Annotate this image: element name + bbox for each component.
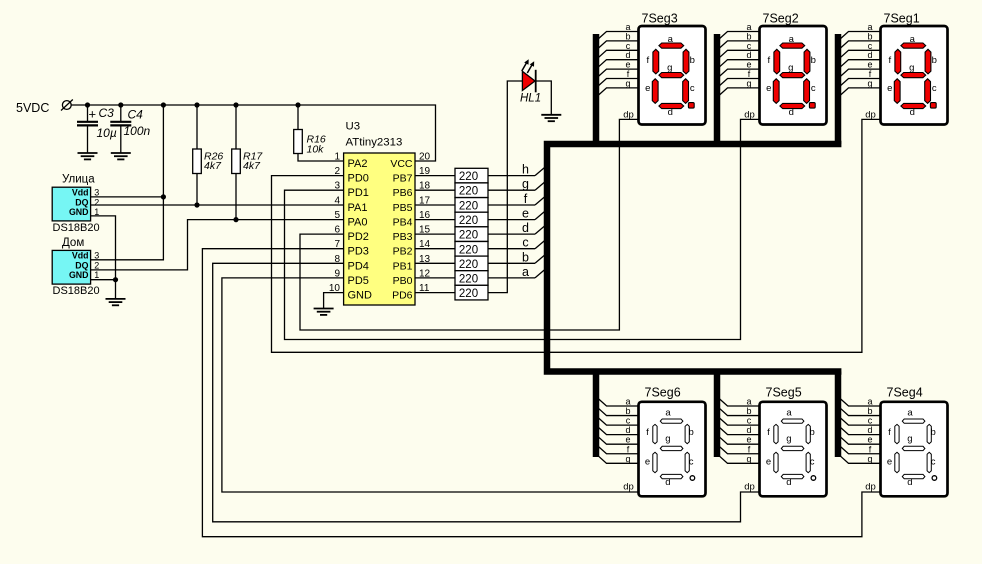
svg-text:d: d	[786, 477, 791, 488]
junction R17/DQ2 net	[233, 217, 238, 222]
wire Дом GND pin 1	[91, 279, 116, 281]
svg-text:e: e	[746, 435, 751, 445]
wire PB pin to 220	[415, 262, 455, 264]
svg-text:220: 220	[459, 274, 478, 286]
svg-text:f: f	[767, 55, 770, 66]
wire segment a of 7Seg3	[597, 32, 639, 41]
wire segment g of 7Seg3	[597, 88, 639, 97]
wire segment f of 7Seg2	[718, 79, 760, 88]
svg-text:c: c	[810, 457, 815, 468]
svg-text:b: b	[811, 55, 816, 66]
wire segment c of 7Seg2	[718, 50, 760, 59]
wire segment f of 7Seg3	[597, 79, 639, 88]
svg-text:f: f	[524, 192, 528, 206]
svg-text:a: a	[668, 34, 674, 45]
svg-text:PB0: PB0	[393, 275, 413, 287]
svg-text:220: 220	[459, 230, 478, 242]
power connector X1 5VDC	[16, 100, 73, 116]
svg-text:c: c	[931, 457, 936, 468]
resistor 220 (R2 segment driver)	[455, 183, 488, 198]
svg-text:GND: GND	[348, 290, 373, 302]
svg-text:a: a	[910, 34, 916, 45]
resistor 220 (R4 segment driver)	[455, 212, 488, 227]
svg-text:g: g	[788, 62, 793, 73]
svg-text:C3: C3	[99, 106, 115, 120]
7-segment display 7Seg5	[760, 386, 827, 497]
7-segment display 7Seg2	[760, 12, 827, 125]
bus branch to 7Seg1	[835, 34, 842, 144]
svg-text:PD6: PD6	[392, 290, 413, 302]
svg-text:PA2: PA2	[348, 158, 368, 170]
svg-text:a: a	[907, 407, 913, 418]
svg-text:g: g	[786, 434, 791, 445]
svg-text:b: b	[625, 406, 630, 416]
temperature sensor DS18B20 (Улица)	[52, 174, 99, 234]
svg-text:g: g	[907, 434, 912, 445]
resistor 220 (R8 segment driver)	[455, 271, 488, 286]
svg-text:f: f	[888, 55, 891, 66]
bus branch to 7Seg3	[593, 34, 600, 144]
wire segment b of 7Seg2	[718, 41, 760, 50]
wire segment b of 7Seg4	[839, 407, 881, 416]
wire 220 output net b	[488, 262, 535, 264]
svg-text:dp: dp	[865, 482, 876, 493]
wire segment e of 7Seg5	[718, 436, 760, 445]
wire segment a of 7Seg6	[597, 398, 639, 407]
bus entry slash net a	[535, 269, 545, 278]
svg-text:4: 4	[334, 196, 340, 207]
wire segment c of 7Seg3	[597, 50, 639, 59]
svg-text:+: +	[89, 107, 97, 122]
junction +5V/R16	[295, 102, 300, 107]
capacitor C3	[77, 105, 117, 159]
svg-text:a: a	[746, 397, 751, 407]
bus entry slash net f	[535, 197, 545, 206]
svg-text:220: 220	[459, 215, 478, 227]
7-segment display 7Seg6	[639, 386, 706, 497]
svg-text:PB5: PB5	[393, 202, 413, 214]
wire PD4 to 7Seg5 dp	[213, 263, 760, 522]
wire PD1 to 7Seg2 dp	[285, 119, 760, 339]
svg-text:g: g	[746, 454, 751, 464]
resistor 220 (R1 segment driver)	[455, 168, 488, 183]
svg-text:d: d	[746, 425, 751, 435]
svg-text:7Seg6: 7Seg6	[645, 386, 681, 400]
wire segment f of 7Seg6	[597, 445, 639, 454]
svg-text:a: a	[789, 34, 795, 45]
wire segment f of 7Seg5	[718, 445, 760, 454]
svg-text:7Seg1: 7Seg1	[884, 12, 920, 26]
svg-text:GND: GND	[69, 207, 89, 217]
wire 220 output net h	[488, 175, 535, 177]
svg-text:e: e	[887, 457, 892, 468]
svg-text:g: g	[667, 62, 672, 73]
wire segment g of 7Seg5	[718, 455, 760, 464]
wire segment g of 7Seg6	[597, 455, 639, 464]
wire segment c of 7Seg4	[839, 417, 881, 426]
resistor R17 4k7	[232, 105, 264, 220]
junction +5V/sensor Vdd	[161, 102, 166, 107]
bus branch to 7Seg4	[835, 372, 842, 458]
svg-text:PA1: PA1	[348, 202, 368, 214]
svg-text:220: 220	[459, 244, 478, 256]
wire segment a of 7Seg2	[718, 32, 760, 41]
svg-text:g: g	[665, 434, 670, 445]
svg-text:PD4: PD4	[348, 260, 369, 272]
bus branch to 7Seg2	[714, 34, 721, 144]
bus entry slash net c	[535, 240, 545, 249]
7-segment display 7Seg1	[881, 12, 948, 125]
microcontroller U3 ATtiny2313	[329, 121, 431, 306]
svg-text:dp: dp	[744, 482, 755, 493]
svg-text:1: 1	[334, 152, 340, 163]
svg-text:C4: C4	[128, 108, 144, 122]
svg-text:e: e	[887, 83, 892, 94]
wire segment f of 7Seg4	[839, 445, 881, 454]
wire PB pin to 220	[415, 277, 455, 279]
wire PB pin to 220	[415, 175, 455, 177]
junction Vdd/Улица pin3	[161, 194, 166, 199]
svg-text:b: b	[688, 427, 693, 438]
svg-text:PB7: PB7	[393, 173, 413, 185]
junction sensor grounds	[113, 277, 118, 282]
svg-text:b: b	[867, 406, 872, 416]
resistor 220 (R6 segment driver)	[455, 242, 488, 257]
wire 220 output net e	[488, 219, 535, 221]
bus entry slash net e	[535, 211, 545, 220]
svg-text:dp: dp	[623, 482, 634, 493]
svg-text:c: c	[811, 83, 816, 94]
junction +5V/R26	[194, 102, 199, 107]
svg-text:d: d	[789, 107, 794, 118]
svg-text:PD3: PD3	[348, 246, 369, 258]
svg-text:d: d	[522, 221, 529, 235]
svg-text:7Seg2: 7Seg2	[763, 12, 799, 26]
bus trunk (segment nets)	[547, 144, 841, 372]
7-segment display 7Seg4	[881, 386, 948, 497]
svg-text:PB4: PB4	[393, 217, 413, 229]
svg-text:d: d	[867, 425, 872, 435]
bus branch to 7Seg5	[714, 372, 721, 458]
svg-text:d: d	[668, 107, 673, 118]
wire segment g of 7Seg1	[839, 88, 881, 97]
svg-text:5: 5	[334, 210, 340, 221]
junction +5V/C3	[85, 102, 90, 107]
wire Дом DQ pin 2 to PA0	[91, 220, 344, 270]
svg-text:4k7: 4k7	[243, 160, 261, 172]
LED HL1	[520, 59, 541, 104]
svg-text:e: e	[645, 83, 650, 94]
svg-text:3: 3	[94, 188, 99, 198]
svg-text:1: 1	[94, 270, 99, 280]
wire Vdd rail to both sensors	[91, 105, 164, 260]
7-segment display 7Seg3	[639, 12, 706, 125]
ground (sensors)	[106, 299, 126, 305]
svg-text:a: a	[625, 397, 630, 407]
wire segment f of 7Seg1	[839, 79, 881, 88]
svg-text:ATtiny2313: ATtiny2313	[346, 137, 403, 149]
svg-text:U3: U3	[346, 121, 361, 133]
wire segment b of 7Seg5	[718, 407, 760, 416]
wire PB pin to 220	[415, 204, 455, 206]
svg-text:7Seg5: 7Seg5	[766, 386, 802, 400]
wire GND pin 10	[324, 293, 344, 309]
ground (HL1)	[541, 115, 561, 121]
svg-text:220: 220	[459, 186, 478, 198]
svg-text:b: b	[930, 427, 935, 438]
wire Улица GND pin 1 to ground	[91, 216, 116, 299]
svg-text:PB6: PB6	[393, 187, 413, 199]
wire segment d of 7Seg3	[597, 60, 639, 68]
wire 220 output net f	[488, 204, 535, 206]
svg-text:Vdd: Vdd	[72, 188, 89, 198]
svg-text:b: b	[690, 55, 695, 66]
svg-text:c: c	[522, 236, 528, 250]
temperature sensor DS18B20 (Дом)	[52, 237, 99, 297]
wire segment c of 7Seg1	[839, 50, 881, 59]
svg-text:b: b	[746, 406, 751, 416]
wire Улица DQ pin 2 to PA1	[91, 204, 344, 206]
svg-text:PD5: PD5	[348, 275, 369, 287]
wire PB pin to 220	[415, 292, 455, 294]
bus entry slash net g	[535, 182, 545, 191]
svg-text:PB1: PB1	[393, 260, 413, 272]
resistor 220 (R3 segment driver)	[455, 198, 488, 213]
svg-text:g: g	[909, 62, 914, 73]
wire segment a of 7Seg1	[839, 32, 881, 41]
svg-text:a: a	[867, 397, 872, 407]
bus branch to 7Seg6	[593, 372, 600, 458]
capacitor C4	[110, 105, 150, 159]
svg-text:b: b	[522, 250, 529, 264]
svg-text:4k7: 4k7	[204, 160, 222, 172]
wire segment d of 7Seg1	[839, 60, 881, 68]
wire PD0 to 7Seg1 dp	[272, 119, 881, 352]
svg-text:h: h	[522, 163, 529, 177]
svg-text:100n: 100n	[124, 124, 151, 138]
svg-text:c: c	[690, 83, 695, 94]
wire PD2 to 7Seg3 dp	[300, 119, 639, 330]
svg-text:c: c	[747, 416, 752, 426]
svg-text:10k: 10k	[307, 144, 325, 156]
svg-text:f: f	[888, 427, 891, 438]
wire segment e of 7Seg2	[718, 69, 760, 78]
svg-text:Vdd: Vdd	[72, 251, 89, 261]
svg-text:PD0: PD0	[348, 173, 369, 185]
svg-text:5VDC: 5VDC	[16, 101, 49, 115]
svg-text:g: g	[867, 78, 872, 88]
resistor 220 (R7 segment driver)	[455, 256, 488, 271]
svg-text:DS18B20: DS18B20	[53, 222, 100, 234]
svg-text:10µ: 10µ	[97, 126, 117, 140]
svg-text:b: b	[932, 55, 937, 66]
svg-text:a: a	[786, 407, 792, 418]
wire segment g of 7Seg2	[718, 88, 760, 97]
svg-text:PD1: PD1	[348, 187, 369, 199]
wire 220 output net g	[488, 189, 535, 191]
wire segment a of 7Seg4	[839, 398, 881, 407]
svg-text:f: f	[627, 444, 630, 454]
svg-text:e: e	[625, 435, 630, 445]
resistor R16 10k	[294, 105, 344, 161]
wire segment b of 7Seg3	[597, 41, 639, 50]
svg-text:a: a	[522, 265, 529, 279]
wire PD6/220 to LED anode	[488, 81, 522, 293]
svg-text:f: f	[767, 427, 770, 438]
svg-text:g: g	[625, 454, 630, 464]
svg-text:c: c	[626, 416, 631, 426]
svg-text:VCC: VCC	[390, 158, 413, 170]
svg-text:GND: GND	[69, 270, 89, 280]
wire segment a of 7Seg5	[718, 398, 760, 407]
svg-text:e: e	[522, 207, 529, 221]
wire +5V rail to VCC pin 20	[71, 105, 435, 161]
wire PD3 to 7Seg4 dp	[202, 249, 880, 537]
svg-text:e: e	[766, 83, 771, 94]
svg-text:Улица: Улица	[62, 174, 95, 186]
svg-text:d: d	[625, 425, 630, 435]
bus entry slash net b	[535, 255, 545, 263]
svg-text:7Seg3: 7Seg3	[642, 12, 678, 26]
svg-text:d: d	[907, 477, 912, 488]
svg-text:220: 220	[459, 200, 478, 212]
svg-text:g: g	[867, 454, 872, 464]
bus entry slash net d	[535, 226, 545, 235]
svg-text:d: d	[910, 107, 915, 118]
svg-text:c: c	[868, 416, 873, 426]
resistor R26 4k7	[193, 105, 224, 205]
wire segment e of 7Seg3	[597, 69, 639, 78]
wire segment d of 7Seg2	[718, 60, 760, 68]
svg-text:f: f	[748, 444, 751, 454]
svg-text:DS18B20: DS18B20	[53, 285, 100, 297]
svg-text:f: f	[869, 444, 872, 454]
svg-text:220: 220	[459, 259, 478, 271]
wire segment e of 7Seg1	[839, 69, 881, 78]
svg-text:b: b	[809, 427, 814, 438]
svg-text:c: c	[932, 83, 937, 94]
wire 220 output net d	[488, 233, 535, 235]
wire segment b of 7Seg1	[839, 41, 881, 50]
svg-text:PA0: PA0	[348, 217, 368, 229]
wire PB pin to 220	[415, 233, 455, 235]
svg-text:d: d	[665, 477, 670, 488]
junction +5V/C4	[118, 102, 123, 107]
wire PB pin to 220	[415, 219, 455, 221]
svg-text:a: a	[665, 407, 671, 418]
resistor 220 (R9 segment driver)	[455, 285, 488, 300]
svg-text:PD2: PD2	[348, 231, 369, 243]
svg-text:f: f	[646, 427, 649, 438]
wire segment d of 7Seg6	[597, 426, 639, 435]
svg-text:c: c	[689, 457, 694, 468]
svg-text:g: g	[746, 78, 751, 88]
svg-text:220: 220	[459, 171, 478, 183]
wire segment d of 7Seg5	[718, 426, 760, 435]
junction +5V/R17	[233, 102, 238, 107]
wire PD5 to 7Seg6 dp	[222, 278, 639, 492]
wire 220 output net c	[488, 248, 535, 250]
svg-text:PB2: PB2	[393, 246, 413, 258]
svg-text:g: g	[625, 78, 630, 88]
wire segment c of 7Seg5	[718, 417, 760, 426]
svg-text:e: e	[766, 457, 771, 468]
wire segment b of 7Seg6	[597, 407, 639, 416]
ground (U3)	[314, 309, 334, 315]
svg-text:e: e	[645, 457, 650, 468]
svg-text:7Seg4: 7Seg4	[887, 386, 923, 400]
wire Улица Vdd pin 3	[91, 196, 164, 198]
svg-text:g: g	[522, 177, 529, 191]
svg-text:220: 220	[459, 288, 478, 300]
wire segment d of 7Seg4	[839, 426, 881, 435]
wire PB pin to 220	[415, 189, 455, 191]
wire segment c of 7Seg6	[597, 417, 639, 426]
svg-text:20: 20	[419, 152, 431, 163]
svg-text:Дом: Дом	[62, 237, 84, 249]
wire LED cathode to ground	[536, 81, 552, 115]
wire 220 output net a	[488, 277, 535, 279]
svg-text:e: e	[867, 435, 872, 445]
wire segment e of 7Seg4	[839, 436, 881, 445]
wire segment g of 7Seg4	[839, 455, 881, 464]
wire PB pin to 220	[415, 248, 455, 250]
svg-text:f: f	[646, 55, 649, 66]
svg-text:HL1: HL1	[520, 93, 541, 105]
junction R26/DQ1 net	[194, 202, 199, 207]
resistor 220 (R5 segment driver)	[455, 227, 488, 242]
wire segment e of 7Seg6	[597, 436, 639, 445]
bus entry slash net h	[535, 167, 545, 176]
svg-text:PB3: PB3	[393, 231, 413, 243]
